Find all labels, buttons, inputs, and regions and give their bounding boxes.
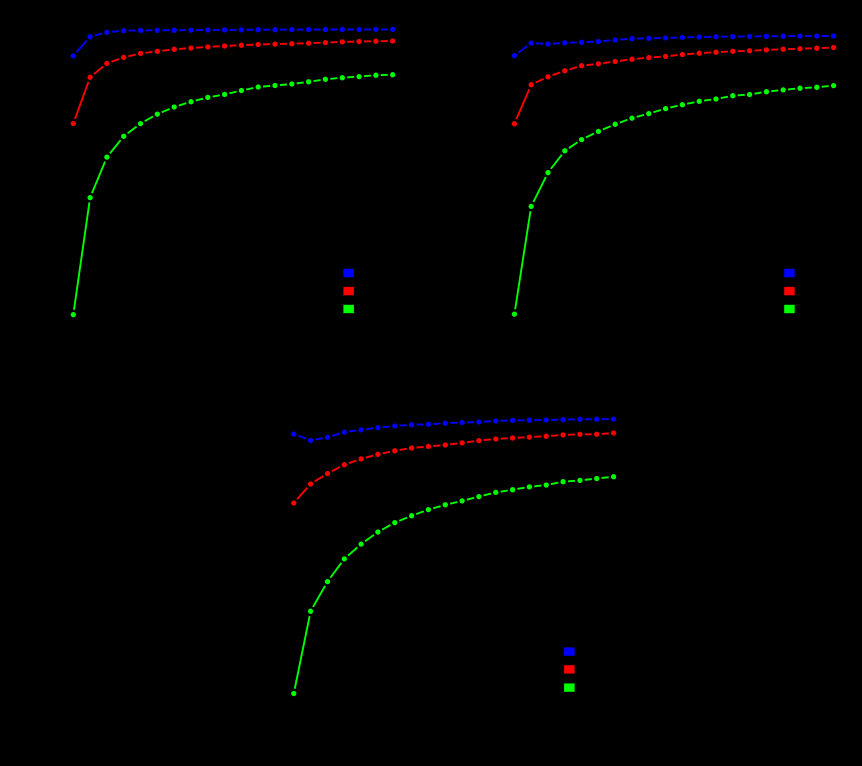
top-right legend: red swatch (784, 287, 795, 295)
top-left legend: green swatch (343, 305, 354, 313)
top-right plot: red curve (series 2) (509, 43, 838, 129)
top-left plot: red curve (series 2) (68, 36, 397, 129)
top-right plot: green curve (series 3) (509, 81, 838, 320)
top-right plot: blue curve (series 1) (509, 31, 838, 61)
top-left legend: blue swatch (343, 269, 354, 277)
top-left plot: green curve (series 3) (68, 70, 397, 320)
bottom plot: green curve (series 3) (289, 472, 619, 699)
bottom plot: blue curve (series 1) (289, 414, 619, 445)
bottom plot: red curve (series 2) (289, 428, 619, 508)
top-left legend: red swatch (343, 287, 354, 295)
bottom legend: blue swatch (564, 647, 575, 655)
top-right legend: blue swatch (784, 269, 795, 277)
bottom legend: green swatch (564, 683, 575, 691)
bottom legend: red swatch (564, 665, 575, 673)
top-right legend: green swatch (784, 305, 795, 313)
top-left plot: blue curve (series 1) (68, 24, 397, 61)
